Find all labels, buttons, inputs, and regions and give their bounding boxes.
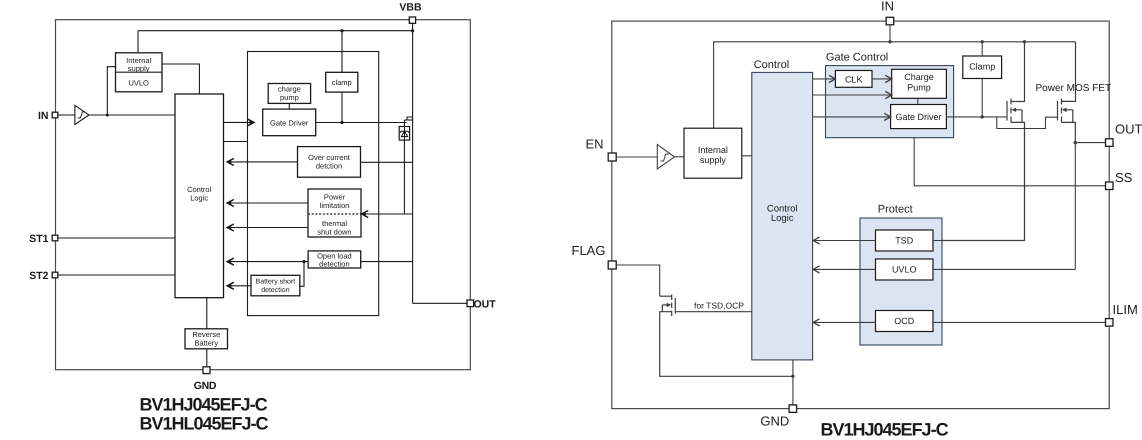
svg-text:detction: detction bbox=[316, 161, 342, 170]
svg-text:pump: pump bbox=[280, 93, 299, 102]
svg-text:VBB: VBB bbox=[399, 2, 422, 14]
svg-text:Gate Driver: Gate Driver bbox=[895, 112, 941, 122]
svg-text:detection: detection bbox=[261, 286, 290, 294]
svg-text:Charge: Charge bbox=[904, 72, 934, 82]
svg-text:for TSD,OCP: for TSD,OCP bbox=[694, 301, 744, 311]
svg-text:OUT: OUT bbox=[1115, 122, 1142, 137]
svg-text:BV1HL045EFJ-C: BV1HL045EFJ-C bbox=[140, 414, 269, 434]
svg-text:Pump: Pump bbox=[907, 83, 931, 93]
svg-text:Control: Control bbox=[754, 59, 789, 71]
svg-text:shut down: shut down bbox=[317, 227, 351, 236]
svg-text:Internal: Internal bbox=[698, 145, 728, 155]
svg-text:ST2: ST2 bbox=[29, 270, 48, 282]
svg-text:Gate Control: Gate Control bbox=[826, 52, 888, 64]
svg-text:BV1HJ045EFJ-C: BV1HJ045EFJ-C bbox=[140, 395, 268, 415]
svg-text:Battery short: Battery short bbox=[256, 278, 296, 286]
svg-text:IN: IN bbox=[881, 0, 894, 14]
svg-text:Power MOS FET: Power MOS FET bbox=[1036, 83, 1112, 94]
svg-text:BV1HJ045EFJ-C: BV1HJ045EFJ-C bbox=[821, 420, 949, 440]
svg-text:Logic: Logic bbox=[190, 194, 208, 203]
svg-text:SS: SS bbox=[1115, 170, 1133, 185]
svg-text:TSD: TSD bbox=[895, 236, 914, 246]
svg-text:FLAG: FLAG bbox=[572, 243, 606, 258]
svg-text:clamp: clamp bbox=[332, 78, 352, 87]
svg-text:OCD: OCD bbox=[894, 316, 915, 326]
svg-text:Clamp: Clamp bbox=[969, 62, 995, 72]
svg-text:Gate Driver: Gate Driver bbox=[270, 118, 309, 127]
svg-text:OUT: OUT bbox=[474, 298, 497, 310]
svg-text:GND: GND bbox=[760, 414, 789, 429]
svg-text:CLK: CLK bbox=[845, 75, 863, 85]
svg-text:ST1: ST1 bbox=[29, 233, 48, 245]
svg-text:UVLO: UVLO bbox=[128, 79, 149, 88]
svg-text:ILIM: ILIM bbox=[1113, 302, 1138, 317]
svg-text:detection: detection bbox=[319, 259, 349, 268]
svg-text:GND: GND bbox=[194, 380, 217, 392]
svg-text:limitation: limitation bbox=[320, 201, 350, 210]
svg-text:EN: EN bbox=[586, 137, 604, 152]
svg-text:IN: IN bbox=[38, 110, 49, 122]
svg-text:Logic: Logic bbox=[771, 213, 794, 224]
svg-text:UVLO: UVLO bbox=[892, 265, 917, 275]
svg-text:Battery: Battery bbox=[194, 338, 218, 347]
svg-text:supply: supply bbox=[700, 155, 727, 165]
svg-text:Protect: Protect bbox=[878, 204, 913, 216]
svg-text:supply: supply bbox=[128, 64, 150, 73]
